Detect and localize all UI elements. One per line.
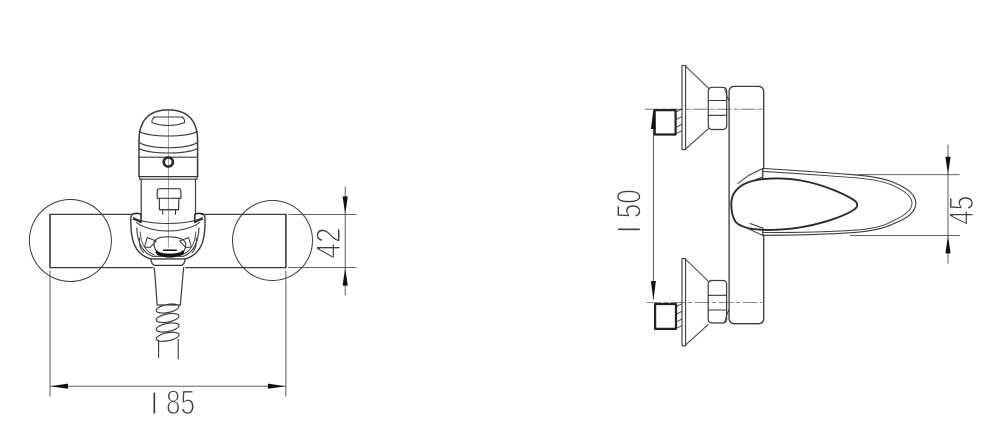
cap top tab	[738, 169, 763, 184]
knob body sides	[139, 140, 198, 177]
cradle right ear	[195, 213, 203, 222]
svg-text:85: 85	[166, 384, 195, 422]
cradle rim band upper	[134, 218, 203, 224]
dim text 150 digit one	[618, 228, 640, 230]
diverter knob body	[159, 198, 179, 209]
body bar right edge	[285, 214, 287, 267]
button ring	[164, 157, 173, 166]
knob bottom flange	[140, 177, 197, 180]
top hex nut flats	[708, 101, 726, 116]
handle knob dome	[139, 110, 198, 141]
left wing tooth	[145, 238, 157, 248]
dim 185 left arrow	[50, 384, 68, 389]
bottom hex nut flats	[708, 295, 726, 310]
body bar left edge	[49, 214, 51, 267]
top thread ticks	[676, 109, 682, 134]
top cone	[686, 66, 709, 149]
knob bottom	[139, 176, 198, 178]
hose spiral loop 1	[155, 302, 179, 314]
svg-text:50: 50	[611, 189, 649, 218]
hose spiral loop 3	[155, 321, 179, 333]
dim 185 right arrow	[268, 384, 286, 389]
cradle foot	[151, 259, 185, 266]
top supply square	[655, 110, 676, 134]
knob latitude arc 3	[139, 149, 198, 154]
cradle dome outer	[131, 214, 205, 259]
centerline of cartridge	[167, 111, 169, 257]
dim 45 top arrow	[945, 157, 950, 175]
bottom hex nut	[708, 281, 726, 324]
right escutcheon circle	[233, 201, 313, 281]
diverter knob cap	[157, 189, 181, 199]
dim 42 bottom arrow	[343, 268, 348, 286]
cradle inner bowl	[137, 228, 199, 256]
cradle left ear	[133, 213, 141, 222]
dim 185 extension lines	[50, 271, 286, 397]
bottom supply square	[655, 304, 676, 329]
top flange disc	[682, 66, 686, 150]
top mount centerline	[645, 108, 762, 110]
top nut-plate diagonal	[725, 89, 730, 103]
body bar top line	[50, 213, 286, 215]
dim 45 bottom arrow	[945, 235, 950, 253]
bottom thread ticks	[677, 304, 683, 329]
right wing tooth	[180, 238, 192, 248]
spray face slot	[163, 249, 177, 251]
dim 150 line	[652, 111, 654, 300]
cap bottom tab	[738, 224, 763, 236]
dim 150 top arrow	[651, 110, 656, 130]
spray face dark crescent	[156, 247, 185, 257]
bottom nut-plate diagonal	[725, 309, 730, 323]
svg-text:45: 45	[943, 196, 981, 225]
handle grip egg	[731, 178, 857, 230]
lever inner line	[763, 172, 912, 233]
hose straight lines	[159, 340, 179, 360]
bottom mount centerline	[647, 302, 762, 304]
diverter knob neck	[163, 210, 176, 215]
knob top facet	[152, 117, 185, 126]
body plate	[729, 86, 764, 323]
dim 45 extension lines	[850, 175, 960, 236]
valve housing below knob	[141, 179, 195, 214]
hose cuff	[154, 268, 183, 305]
dim text 185 digit one	[153, 393, 155, 414]
hose spiral loop 2	[155, 312, 179, 324]
top hex nut	[708, 87, 726, 129]
dim 150 bottom arrow	[651, 281, 656, 300]
dim 42 extension lines	[289, 214, 357, 267]
body bar bottom line	[50, 267, 286, 269]
right bracket arc	[192, 238, 196, 253]
svg-text:42: 42	[310, 228, 348, 259]
dim 185 line	[50, 385, 286, 387]
lever outer outline	[763, 169, 916, 236]
knob horizontal line	[139, 156, 198, 158]
bottom cone	[686, 259, 709, 345]
left escutcheon circle	[29, 200, 111, 282]
knob latitude arc 1	[139, 132, 197, 137]
dim 45 line	[947, 145, 949, 264]
cradle inner bowl 2	[140, 232, 196, 255]
dim 42 top arrow	[343, 196, 348, 214]
left bracket arc	[139, 238, 143, 253]
dim 42 line	[344, 187, 346, 296]
knob latitude arc 2	[139, 143, 198, 148]
shower head face outline	[154, 237, 186, 257]
hose spiral loop 4	[155, 331, 179, 343]
cradle rim band lower	[137, 223, 200, 231]
diverter knob base line	[160, 209, 179, 211]
bottom flange disc	[682, 259, 686, 346]
